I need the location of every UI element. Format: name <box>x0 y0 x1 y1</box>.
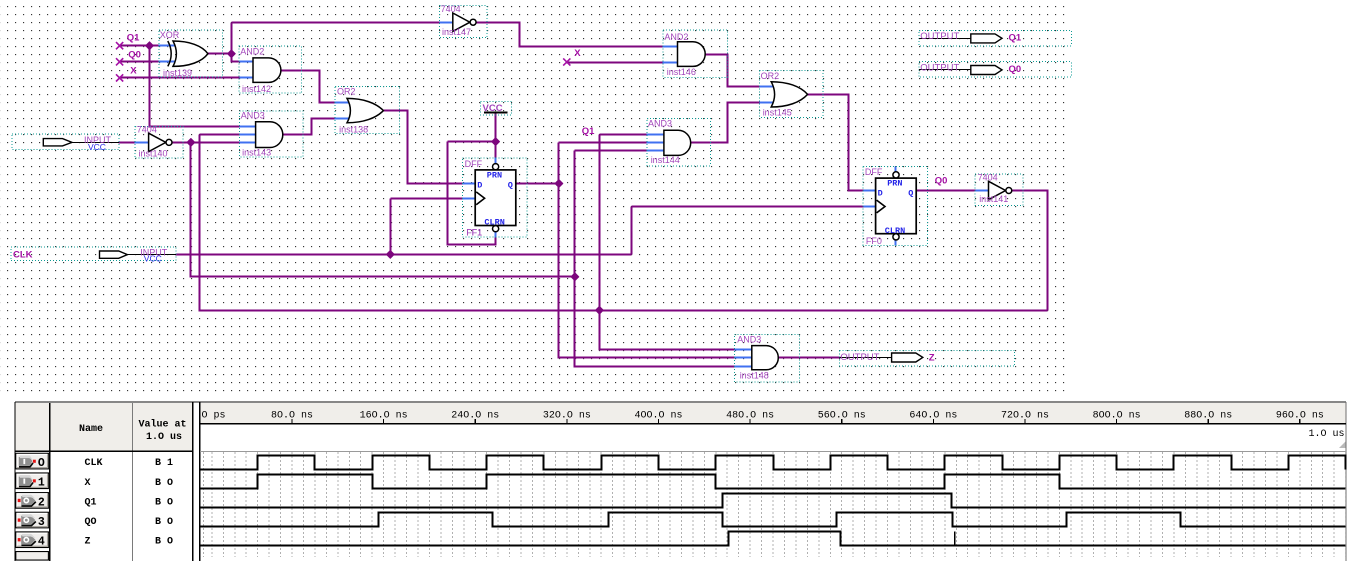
svg-text:DFF: DFF <box>465 159 483 169</box>
svg-text:7404: 7404 <box>137 125 157 135</box>
svg-text:O ps: O ps <box>202 410 226 421</box>
svg-text:OR2: OR2 <box>761 71 780 81</box>
svg-text:B O: B O <box>155 497 173 508</box>
svg-text:Value at: Value at <box>138 419 186 431</box>
svg-text:B O: B O <box>155 517 173 528</box>
svg-text:1.O us: 1.O us <box>1308 429 1344 440</box>
svg-text:2: 2 <box>38 496 45 509</box>
svg-text:VCC: VCC <box>483 103 503 114</box>
svg-text:OUTPUT: OUTPUT <box>920 63 959 74</box>
svg-text:AND2: AND2 <box>664 32 688 42</box>
svg-text:CLK: CLK <box>13 250 33 261</box>
svg-text:AND3: AND3 <box>241 111 265 121</box>
svg-text:VCC: VCC <box>88 142 106 152</box>
svg-text:inst142: inst142 <box>242 84 271 94</box>
svg-text:XOR: XOR <box>160 30 180 40</box>
svg-text:Name: Name <box>79 424 103 435</box>
svg-text:Q0: Q0 <box>1009 64 1022 75</box>
svg-text:VCC: VCC <box>144 254 162 264</box>
svg-text:QO: QO <box>85 517 97 528</box>
svg-text:inst139: inst139 <box>163 68 192 78</box>
svg-text:PRN: PRN <box>487 170 502 180</box>
svg-text:B 1: B 1 <box>155 458 173 469</box>
svg-text:AND3: AND3 <box>648 118 672 128</box>
svg-text:1: 1 <box>38 477 45 490</box>
svg-text:X: X <box>130 65 137 76</box>
svg-text:PRN: PRN <box>887 179 902 189</box>
svg-text:inst148: inst148 <box>740 371 769 381</box>
svg-text:Q1: Q1 <box>85 497 97 508</box>
svg-text:3: 3 <box>38 516 45 529</box>
svg-text:Q0: Q0 <box>128 49 141 60</box>
svg-text:CLK: CLK <box>85 458 103 469</box>
svg-text:Q1: Q1 <box>582 126 595 137</box>
svg-text:Z: Z <box>929 353 935 364</box>
svg-text:4: 4 <box>38 536 45 549</box>
svg-text:FF1: FF1 <box>466 228 482 238</box>
svg-text:DFF: DFF <box>865 167 883 177</box>
svg-text:Q0: Q0 <box>935 176 948 187</box>
svg-text:CLRN: CLRN <box>484 218 504 228</box>
svg-text:B O: B O <box>155 537 173 548</box>
svg-text:X: X <box>85 478 91 489</box>
svg-text:Q1: Q1 <box>1009 32 1022 43</box>
svg-text:inst144: inst144 <box>651 155 680 165</box>
svg-text:Q1: Q1 <box>127 32 140 43</box>
svg-text:AND2: AND2 <box>240 47 264 57</box>
svg-text:CLRN: CLRN <box>885 226 905 236</box>
svg-text:inst147: inst147 <box>442 27 471 37</box>
svg-text:FF0: FF0 <box>866 236 882 246</box>
svg-text:7404: 7404 <box>441 4 461 14</box>
svg-text:Q: Q <box>508 180 513 190</box>
svg-text:X: X <box>574 48 581 59</box>
svg-text:D: D <box>878 189 883 199</box>
svg-text:B O: B O <box>155 478 173 489</box>
svg-text:Q: Q <box>908 189 913 199</box>
svg-text:D: D <box>477 180 482 190</box>
svg-text:inst143: inst143 <box>242 148 271 158</box>
svg-text:1.O us: 1.O us <box>146 432 182 443</box>
svg-text:inst141: inst141 <box>979 194 1008 204</box>
svg-text:OR2: OR2 <box>337 86 356 96</box>
svg-text:Z: Z <box>85 537 91 548</box>
svg-text:O: O <box>38 457 45 470</box>
svg-text:OUTPUT: OUTPUT <box>840 352 879 363</box>
svg-text:inst140: inst140 <box>139 149 168 159</box>
svg-text:OUTPUT: OUTPUT <box>920 31 959 42</box>
svg-text:inst145: inst145 <box>763 107 792 117</box>
svg-text:AND3: AND3 <box>737 335 761 345</box>
svg-text:inst138: inst138 <box>339 124 368 134</box>
svg-text:inst146: inst146 <box>667 67 696 77</box>
svg-text:7404: 7404 <box>978 173 998 183</box>
